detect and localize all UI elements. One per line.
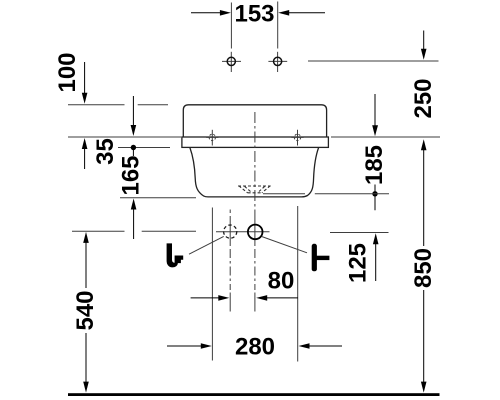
- reference line y=197.7 left (bowl bottom level): [120, 197, 196, 199]
- leader line to horizontal outlet symbol: [262, 237, 307, 253]
- basin flange: [182, 137, 329, 147]
- basin body top: [183, 105, 326, 137]
- vertical outlet symbol (siphon): [167, 243, 184, 267]
- mounting hole left: [227, 57, 235, 65]
- dimension 165 lower arrow: [133, 208, 135, 239]
- drain circle centerline vertical left: [229, 210, 231, 214]
- drain reference line y=231.3 left segments: [72, 230, 125, 232]
- basin centerline: [254, 112, 256, 216]
- dimension 80 left arrow: [191, 297, 220, 299]
- reference line y=104.8 left (body top level): [68, 104, 125, 106]
- extension line 280 right: [297, 206, 299, 362]
- svg-text:280: 280: [235, 334, 275, 361]
- dimension 80 right arrow: [266, 297, 298, 299]
- svg-text:80: 80: [268, 268, 295, 295]
- flange fixing hole left: [206, 130, 218, 146]
- horizontal outlet symbol: [312, 244, 330, 271]
- floor line: [68, 393, 440, 396]
- svg-text:165: 165: [117, 155, 144, 195]
- drain hole vertical outlet (dashed circle): [224, 225, 237, 238]
- dimension 153 arrow right: [288, 12, 325, 14]
- dimension 100 lower arrow: [84, 141, 86, 169]
- svg-text:185: 185: [361, 145, 388, 185]
- dimension 280 left arrow: [167, 345, 202, 347]
- svg-text:100: 100: [54, 52, 81, 92]
- dimension 153 extension line right: [277, 2, 279, 49]
- basin bowl outline: [190, 148, 319, 197]
- mounting hole right crosshair horizontal: [268, 60, 287, 62]
- dimension 850 lower line: [423, 290, 425, 382]
- dimension 35 upper arrow: [132, 96, 134, 127]
- reference line y=137 left (flange top level): [68, 136, 181, 138]
- drain reference line y=232.5 right segment: [330, 232, 389, 234]
- dimension 100 upper arrow: [84, 62, 86, 94]
- reference line y=137 right: [331, 136, 440, 138]
- top reference line right (hole level): [308, 60, 439, 62]
- flange fixing hole right: [291, 130, 303, 146]
- dimension 250 arrow top: [423, 31, 425, 51]
- drain crosshair horizontal: [216, 231, 270, 233]
- mounting hole left crosshair vertical: [230, 52, 232, 72]
- svg-text:153: 153: [234, 1, 274, 28]
- dimension 850 top arrow (shared with 250): [423, 150, 425, 247]
- dimension 540 top arrow: [83, 232, 89, 243]
- reference line y=193.8 right (bowl bottom to dot): [315, 193, 389, 195]
- dimension 153 arrow left: [191, 12, 221, 14]
- dimension 35 shared dot: [131, 145, 136, 150]
- mounting hole right: [274, 57, 282, 65]
- dimension 153 extension line left: [230, 3, 232, 49]
- dimension 280 right arrow: [309, 345, 343, 347]
- dimension 185 lower line with dot: [374, 185, 376, 211]
- drain hidden outline dashes: [238, 186, 271, 193]
- svg-text:125: 125: [345, 243, 372, 283]
- svg-text:850: 850: [410, 248, 437, 288]
- extension line 280 left: [211, 208, 213, 361]
- dimension 125 arrow: [373, 233, 379, 244]
- mounting hole right crosshair vertical: [277, 52, 279, 72]
- mounting hole left crosshair horizontal: [222, 60, 241, 62]
- svg-text:35: 35: [92, 138, 119, 165]
- bowl inner bottom line: [263, 193, 305, 195]
- leader line to vertical outlet symbol: [189, 236, 224, 254]
- reference line y=147.5 left (flange bottom level): [118, 147, 170, 149]
- drain hole horizontal outlet (solid circle): [248, 225, 263, 240]
- svg-text:540: 540: [72, 290, 99, 330]
- dimension 185 top arrow: [374, 94, 376, 127]
- svg-text:250: 250: [410, 78, 437, 118]
- dimension 540 lower line: [85, 333, 87, 382]
